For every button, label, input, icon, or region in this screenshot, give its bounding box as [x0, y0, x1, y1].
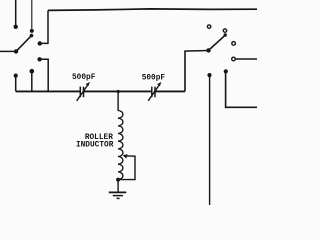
- svg-text:500pF: 500pF: [72, 74, 96, 82]
- svg-text:INDUCTOR: INDUCTOR: [76, 142, 114, 150]
- svg-text:500pF: 500pF: [142, 75, 166, 83]
